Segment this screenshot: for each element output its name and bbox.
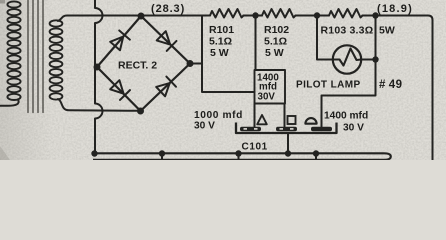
wire box to capacitor section A plate [254,104,256,127]
wire primary bottom lead [0,100,19,106]
svg-text:5 W: 5 W [210,47,229,59]
capacitor C101 common bracket [236,123,337,134]
pilot lamp filament [334,49,362,66]
svg-text:5.1Ω: 5.1Ω [264,36,287,48]
transformer T1 primary winding [7,1,20,100]
transformer T1 secondary winding [50,20,63,99]
resistor R101 zigzag [210,9,244,18]
diode D3 (lower-right arm) [156,77,176,97]
diode D2 (upper-right arm) [156,31,176,51]
node bridge top vertex [138,13,145,20]
resistor R102 zigzag [262,9,296,18]
svg-text:5.1Ω: 5.1Ω [209,36,232,48]
node bridge right vertex [187,60,194,67]
section mark triangle [257,115,267,124]
wire pilot lamp right side [361,59,376,61]
node R102/R103 junction [314,12,320,18]
svg-text:1000 mfd: 1000 mfd [194,110,243,121]
wire R103 right down and over to capacitor section C [322,16,376,127]
capacitor C101B label box [255,70,286,104]
svg-text:RECT. 2: RECT. 2 [118,60,157,72]
pilot lamp bulb [333,45,361,73]
node pilot lamp right junction [372,56,378,62]
capacitor C101 section A plate [240,127,261,131]
svg-text:30 V: 30 V [343,123,364,134]
wire stub below bus 1 [161,153,163,160]
svg-text:R101: R101 [209,24,234,36]
svg-text:R103 3.3Ω: R103 3.3Ω [321,25,374,37]
wire secondary bottom lead [58,99,141,111]
bridge rectifier RECT. 2 diamond [97,16,190,111]
wire junction R102/R103 down to pilot lamp [317,16,333,60]
svg-text:5 W: 5 W [265,47,284,59]
section mark half-disc [305,118,316,124]
section mark square [288,116,296,124]
node R101/R102 junction [252,12,258,18]
svg-text:R102: R102 [264,24,289,36]
wire bottom ground bus with hairpin return [93,153,391,160]
wire stub below bus 3 [315,153,317,160]
node bus junction 2 [235,150,241,156]
wire junction R101/R102 down to C101B label box [255,16,257,71]
svg-text:5W: 5W [379,25,395,37]
svg-text:1400 mfd: 1400 mfd [324,111,368,122]
svg-text:# 49: # 49 [379,79,403,91]
node bridge bottom vertex [137,108,144,115]
node bus junction 1 [159,150,165,156]
node bus junction C101 [285,150,291,156]
node bus junction 3 [313,150,319,156]
svg-text:30 V: 30 V [194,121,215,132]
capacitor C101 section B plate [276,127,297,131]
svg-text:(18.9): (18.9) [377,3,413,15]
svg-text:C101: C101 [242,142,268,153]
smudge top-left corner [0,0,5,4]
wire B+ vertical with crossover hops [95,0,103,154]
wire top positive bus [141,15,210,17]
node R103 right junction [372,12,378,18]
node bridge left vertex [94,64,101,71]
svg-text:(28.3): (28.3) [151,3,185,15]
diode D1 (upper-left arm) [110,30,130,50]
capacitor C101 section C plate [311,127,332,131]
node bus left end [91,150,97,156]
wire box to capacitor section B plate [284,104,286,127]
wire C101 common to ground bus [287,133,289,154]
resistor R103 zigzag [329,9,363,18]
paper background [0,0,446,160]
svg-text:30V: 30V [258,92,276,103]
wire stub below bus 2 [238,153,240,160]
wire secondary top lead [58,16,141,22]
svg-text:PILOT LAMP: PILOT LAMP [296,80,361,91]
transformer T1 core [28,0,43,113]
smudge bottom-left corner [0,146,10,160]
diode D4 (lower-left arm) [110,80,130,100]
wire bridge output to R101 left [190,16,255,93]
